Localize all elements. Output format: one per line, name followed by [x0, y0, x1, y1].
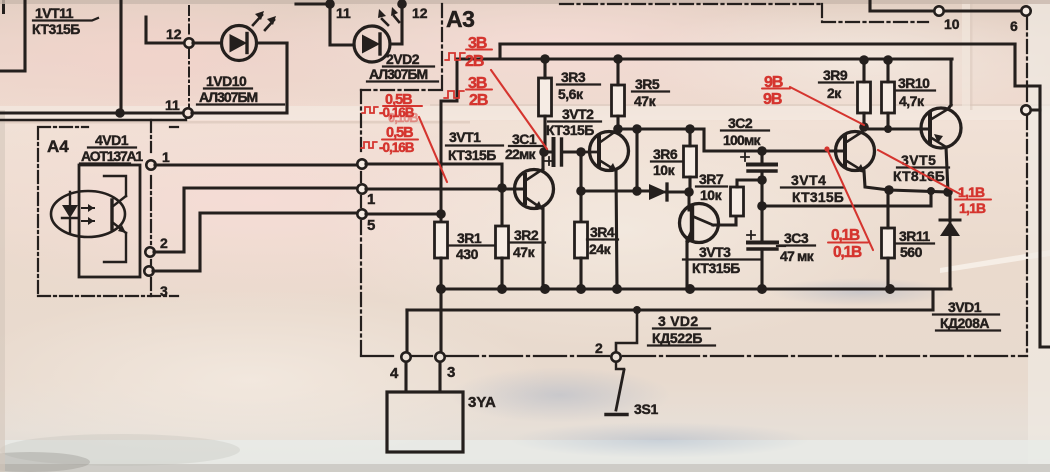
svg-text:3R11: 3R11	[899, 228, 930, 244]
svg-text:4,7к: 4,7к	[899, 93, 925, 109]
node VT4 emitter bus	[884, 185, 894, 195]
svg-text:3R7: 3R7	[699, 171, 724, 187]
transistor 3VT4	[836, 127, 890, 190]
svg-text:2: 2	[160, 235, 168, 251]
node VT2 base / R4	[576, 147, 586, 157]
svg-text:1,1В: 1,1В	[959, 200, 986, 216]
wire ground to low rail	[407, 289, 933, 310]
wire pin1 to A3 terminal 1 top	[155, 163, 357, 166]
diode 3VD1	[940, 192, 960, 289]
terminal 6 circle	[1021, 6, 1030, 15]
svg-text:3R5: 3R5	[635, 76, 660, 92]
red note 1,1V/1,1V	[958, 184, 986, 216]
svg-text:3: 3	[447, 364, 455, 381]
terminal circle (pin1 wire) on A3 left	[357, 159, 366, 168]
red note 9V/9V	[763, 74, 783, 108]
label 3R4 24k	[589, 224, 615, 257]
module A3 boundary dash-dot	[441, 4, 443, 88]
red note 0,5V/-0,16V lower	[379, 125, 415, 155]
svg-text:3YA: 3YA	[468, 394, 496, 411]
svg-text:3С1: 3С1	[512, 131, 537, 147]
supply rail top (net +)	[500, 42, 1015, 45]
resistor 3R1	[435, 222, 448, 289]
capacitor 3C3	[747, 231, 785, 289]
ground rail nodes	[436, 284, 446, 294]
label 3VT4	[791, 172, 844, 205]
label 3C2 100mk	[723, 115, 762, 148]
svg-text:3С3: 3С3	[784, 230, 809, 246]
wire feeding LED 2VD2 left	[296, 0, 354, 45]
svg-text:1VD10: 1VD10	[206, 73, 247, 89]
svg-text:4VD1: 4VD1	[95, 132, 129, 148]
svg-text:10к: 10к	[700, 187, 723, 203]
wire low rail to terminal 4	[405, 310, 408, 352]
svg-text:1VT11: 1VT11	[35, 5, 74, 21]
wire pin2 to A3	[154, 188, 357, 252]
svg-text:10к: 10к	[653, 162, 676, 178]
wire rail1 right corner	[1015, 44, 1050, 347]
capacitor 3C2	[741, 151, 776, 242]
svg-text:47 мк: 47 мк	[780, 248, 815, 264]
wire collector bus to right	[618, 129, 845, 151]
svg-text:0,10В: 0,10В	[388, 110, 418, 125]
capacitor 3C1	[544, 139, 580, 165]
svg-text:2к: 2к	[827, 85, 842, 101]
optocoupler 4VD1 body	[51, 165, 140, 277]
wire vertical to node at 120,113	[119, 0, 122, 113]
label 3VT3	[692, 244, 740, 276]
svg-text:КТ315Б: КТ315Б	[32, 21, 80, 37]
red faint ghost row	[388, 110, 418, 125]
label 3R10 4,7k	[898, 75, 930, 109]
svg-text:3: 3	[160, 283, 168, 299]
wire terminal 6 link	[1027, 108, 1040, 111]
node VT4 collector / R9	[859, 122, 869, 132]
node junction on net 11	[115, 108, 125, 118]
svg-text:5,6к: 5,6к	[558, 86, 584, 102]
terminal 2 circle	[611, 352, 620, 361]
svg-text:47к: 47к	[634, 93, 657, 109]
BOTTOM-PART	[387, 284, 951, 452]
transistor 1VT11 label	[32, 5, 80, 37]
labels 1 and 5	[367, 191, 375, 234]
svg-text:АОТ137А1: АОТ137А1	[81, 148, 143, 164]
svg-text:КТ315Б: КТ315Б	[448, 147, 496, 163]
svg-text:100мк: 100мк	[723, 132, 762, 148]
node R1 top	[436, 209, 446, 219]
wires terminals to 3YA	[406, 362, 440, 392]
red waveform glyph 4	[361, 142, 377, 148]
node R10 top on rail2	[883, 55, 893, 65]
node R3 top on rail2	[540, 54, 550, 64]
node wire191 start	[576, 186, 586, 196]
svg-text:АЛ307БМ: АЛ307БМ	[199, 89, 258, 105]
resistor 3R7	[731, 180, 763, 216]
svg-text:1: 1	[162, 149, 170, 165]
svg-text:12: 12	[412, 5, 428, 21]
wire LED1 to net 11	[192, 43, 287, 113]
A3-CORE	[357, 4, 1027, 356]
pin 2 of A4	[145, 247, 154, 256]
resistor 3R5	[612, 59, 625, 129]
module A4 boundary dash-dot box	[38, 127, 178, 296]
terminal 10 circle	[934, 6, 943, 15]
terminal 4 circle	[401, 352, 410, 361]
svg-text:3VT3: 3VT3	[699, 244, 731, 260]
svg-text:АЛ307БМ: АЛ307БМ	[369, 66, 428, 82]
terminal 5 circle on A3 left	[357, 209, 366, 218]
node VT2 collector	[613, 124, 623, 134]
svg-text:КД208А: КД208А	[940, 315, 989, 331]
red note 3V/2V upper	[465, 35, 487, 70]
svg-text:КД522Б: КД522Б	[652, 330, 702, 346]
svg-text:22мк: 22мк	[505, 146, 537, 162]
svg-text:3 VD2: 3 VD2	[658, 313, 698, 329]
red pointer line from VT4 base	[827, 149, 873, 250]
label 3R5 47k	[634, 76, 660, 109]
wire terminal to VT1 base (net 1)	[366, 187, 523, 190]
label 3R6 10k	[653, 146, 678, 178]
svg-text:3R3: 3R3	[561, 69, 586, 85]
red pointer line to VT2 base	[491, 70, 547, 149]
terminal 3 circle	[435, 352, 444, 361]
transistor 3VT1	[515, 152, 554, 289]
svg-text:24к: 24к	[589, 241, 612, 257]
wire node to R2 top	[500, 188, 503, 226]
optocoupler 4VD1 label	[81, 132, 143, 164]
svg-text:430: 430	[456, 246, 479, 262]
ground rail	[441, 288, 951, 291]
label 3R2 47k	[513, 227, 539, 260]
label 2	[595, 340, 603, 356]
wire LED2 right up to top	[390, 0, 402, 44]
label 1VD10	[199, 73, 258, 105]
RED-INK	[361, 35, 991, 261]
node VT1 collector / C1 / R3	[539, 147, 549, 157]
svg-text:11: 11	[336, 5, 351, 21]
wire emitter bus	[889, 190, 947, 192]
label 3C1 22mk	[505, 131, 537, 162]
label 3YA	[468, 394, 496, 411]
wire node down to R4	[579, 152, 582, 222]
node C2 bottom / R7	[757, 175, 767, 185]
wire pin1-net across to R2	[366, 164, 502, 188]
svg-text:9В: 9В	[763, 91, 782, 108]
terminal circle mid right	[1021, 105, 1030, 114]
label 3VT2	[546, 106, 594, 138]
resistor 3R3	[539, 59, 552, 152]
svg-text:2В: 2В	[465, 53, 484, 70]
node 637/191	[632, 186, 642, 196]
node R5 top on rail2	[613, 54, 623, 64]
label 3R11 560	[899, 228, 930, 260]
RIGHT-PART	[649, 0, 1050, 347]
svg-text:47к: 47к	[513, 244, 536, 260]
red pointer line to VT5 emitter	[878, 150, 960, 194]
svg-text:А4: А4	[47, 137, 69, 156]
svg-text:2В: 2В	[469, 92, 488, 109]
node VT3 base / R6 bottom	[684, 187, 694, 197]
switch 3S1	[606, 362, 627, 415]
label 2VD2	[369, 51, 428, 82]
red note 3V/2V lower	[468, 75, 488, 109]
svg-text:0,1В: 0,1В	[833, 244, 862, 261]
MAIN-INK	[0, 0, 438, 120]
label diode 3VD2 KD522B	[652, 313, 702, 346]
wire VT5 base	[864, 127, 930, 129]
resistor 3R2	[496, 226, 509, 289]
pin 12 terminal circle	[184, 38, 193, 47]
wire 206 to right	[762, 191, 931, 206]
svg-text:3С2: 3С2	[728, 115, 753, 131]
pin number labels 1 2 3	[160, 149, 170, 299]
svg-text:3R2: 3R2	[514, 227, 539, 243]
labels 4 and 3	[390, 364, 455, 382]
svg-text:6: 6	[1010, 18, 1018, 34]
boundary dash-dot of left module	[188, 6, 190, 108]
svg-text:3VT2: 3VT2	[562, 106, 594, 122]
LED 1VD10	[193, 11, 287, 61]
svg-text:10: 10	[944, 16, 960, 32]
wire left module corner	[0, 0, 25, 71]
svg-text:2: 2	[595, 340, 603, 356]
wire from pin 11 down-left	[0, 117, 186, 120]
svg-text:0,1В: 0,1В	[831, 227, 860, 244]
diode in series to VT3 base	[649, 184, 689, 200]
LED 2VD2	[354, 7, 399, 62]
red waveform glyph 3	[362, 107, 378, 113]
node R10 bottom on base wire	[884, 125, 892, 133]
node C2 top on bus	[757, 146, 767, 156]
terminal 1 circle on A3 left	[357, 184, 366, 193]
wire stub feeding LED 1VD10	[146, 17, 184, 43]
svg-text:11: 11	[165, 97, 180, 113]
svg-text:1,1В: 1,1В	[958, 184, 985, 200]
wire staircase from rail2 to R1	[441, 59, 457, 222]
svg-text:-0,16В: -0,16В	[379, 140, 415, 155]
svg-text:4: 4	[390, 365, 399, 382]
red waveform glyph 1	[445, 53, 465, 60]
node R6 top	[685, 124, 695, 134]
wire 191 to diode	[581, 189, 649, 192]
node at 637	[632, 124, 642, 134]
supply rail 2	[457, 44, 952, 59]
svg-text:КТ315Б: КТ315Б	[546, 122, 594, 138]
svg-text:3R6: 3R6	[653, 146, 678, 162]
svg-text:2VD2: 2VD2	[386, 51, 420, 67]
svg-text:3R4: 3R4	[590, 224, 615, 240]
pin 1 of A4	[146, 160, 155, 169]
resistor 3R10	[882, 60, 895, 129]
node switch on low rail	[633, 306, 641, 314]
resistor 3R6	[684, 129, 697, 192]
svg-text:А3: А3	[446, 6, 474, 32]
node R9 top on rail2	[859, 55, 869, 65]
label 3VD1 KD208A	[940, 299, 989, 331]
svg-text:3VT4: 3VT4	[791, 172, 826, 188]
wire pin3 to A3	[153, 213, 357, 271]
label 3R3 5,6k	[558, 69, 586, 102]
node on VT1 base	[497, 183, 507, 193]
red pointer line to VT1 base	[419, 117, 447, 182]
label 3R7 10k	[699, 171, 724, 203]
transistor 3VT5	[921, 59, 961, 192]
label 3VT1	[448, 129, 496, 163]
resistor 3R4	[575, 222, 588, 289]
block 3YA	[387, 392, 463, 452]
red pointer line to VT4 collector	[790, 87, 864, 125]
red note 0,5V/-0,16V upper	[379, 92, 415, 120]
label 11 12 near top	[165, 5, 428, 113]
svg-text:3R10: 3R10	[898, 75, 930, 91]
node VT5 emitter / diode top	[943, 187, 953, 197]
wire net 11 horizontal	[0, 111, 184, 114]
svg-text:3VT1: 3VT1	[449, 129, 481, 145]
wire switch riser to low rail	[616, 310, 637, 352]
transistor 3VT2	[585, 129, 629, 289]
node at 402,4	[397, 0, 407, 9]
node at 330,4	[325, 0, 335, 9]
label 3R1 430	[456, 230, 482, 262]
svg-text:3S1: 3S1	[634, 401, 659, 417]
label A4	[47, 137, 69, 156]
resistor 3R11	[882, 190, 895, 289]
A4-BLOCK	[38, 120, 357, 299]
svg-text:560: 560	[900, 244, 923, 260]
transistor 3VT3	[680, 192, 737, 289]
label 3VT5	[893, 152, 945, 184]
wire terminals 10-6 top	[870, 0, 1021, 11]
wire terminal 3 riser	[439, 289, 442, 352]
pin 3 of A4	[144, 266, 153, 275]
svg-text:3R9: 3R9	[823, 67, 848, 83]
wire terminal 5 to R1 top	[366, 212, 441, 215]
red note 0,1V/0,1V	[831, 227, 862, 261]
pin 11 terminal circle	[183, 108, 192, 117]
label A3	[446, 6, 474, 32]
resistor 3R9	[858, 60, 871, 127]
label 3R9 2k	[823, 67, 848, 101]
label 3C3 47mk	[780, 230, 815, 264]
svg-text:1: 1	[367, 191, 375, 208]
node jog	[927, 187, 935, 195]
svg-text:3R1: 3R1	[457, 230, 482, 246]
red waveform glyph 2	[444, 91, 464, 98]
svg-text:КТ315Б: КТ315Б	[692, 260, 740, 276]
node C3 top / wire206	[757, 201, 767, 211]
svg-text:КТ315Б: КТ315Б	[792, 189, 844, 205]
wire 637 down to wire191	[635, 129, 638, 191]
extra wire stub left edge	[2, 0, 5, 14]
svg-text:5: 5	[367, 217, 375, 234]
labels 10 and 6	[944, 16, 1018, 34]
svg-text:12: 12	[166, 26, 182, 42]
svg-text:3VD1: 3VD1	[948, 299, 982, 315]
label 3S1	[634, 401, 659, 417]
